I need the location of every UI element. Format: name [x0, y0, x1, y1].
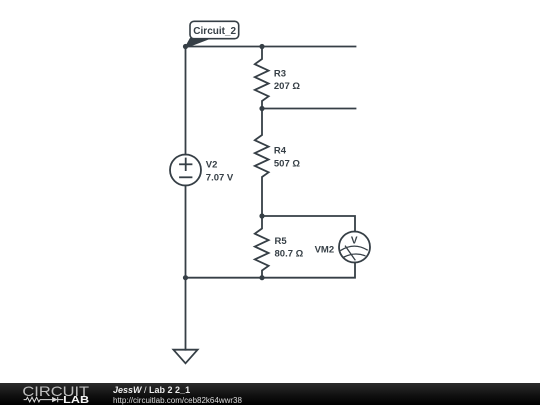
voltmeter VM2 meter face: [341, 246, 367, 250]
svg-text:80.7 Ω: 80.7 Ω: [275, 249, 304, 260]
node label Circuit_2: [186, 21, 239, 47]
resistor R5: [255, 216, 269, 278]
voltage source V2 plus sign: [180, 163, 192, 165]
resistor R4: [255, 109, 269, 217]
voltage source V2 circle: [170, 155, 201, 186]
junction node R3/R4: [259, 106, 264, 111]
wire top horizontal net: [186, 46, 356, 48]
svg-text:R4: R4: [274, 145, 287, 156]
wire left vertical upper: [185, 47, 187, 155]
svg-text:V: V: [351, 235, 358, 246]
svg-text:R3: R3: [274, 68, 286, 79]
voltage source V2 minus sign: [180, 176, 192, 178]
CircuitLab logo: [18, 384, 98, 405]
svg-text:Circuit_2: Circuit_2: [193, 26, 236, 37]
wire left vertical lower: [185, 186, 187, 278]
wire third horizontal (R4-R5 node to voltmeter): [262, 216, 355, 232]
voltmeter VM2 circle: [339, 232, 370, 263]
junction node at label anchor: [183, 44, 188, 49]
resistor R3: [255, 47, 269, 109]
wire bottom horizontal net: [186, 263, 356, 278]
junction node bottom-left: [183, 275, 188, 280]
junction node R3 top: [259, 44, 264, 49]
ground: [173, 350, 197, 364]
svg-text:LAB: LAB: [63, 395, 89, 405]
footer text: [113, 385, 242, 406]
svg-text:207 Ω: 207 Ω: [274, 81, 300, 92]
svg-text:VM2: VM2: [315, 244, 335, 255]
footer bar: [0, 383, 540, 405]
svg-text:7.07 V: 7.07 V: [206, 173, 234, 184]
svg-text:507 Ω: 507 Ω: [274, 159, 300, 170]
junction node R5 bottom: [259, 275, 264, 280]
wire ground lead: [185, 278, 187, 350]
wire second horizontal (R3-R4 node): [262, 108, 356, 110]
svg-text:R5: R5: [275, 236, 288, 247]
junction node R4/R5: [259, 213, 264, 218]
svg-text:V2: V2: [206, 159, 218, 170]
